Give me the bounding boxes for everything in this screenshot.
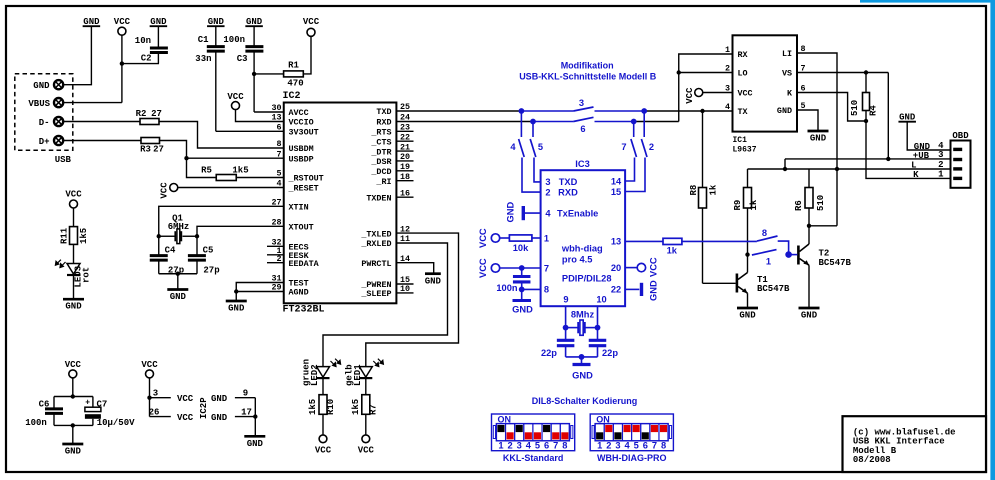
svg-text:LI: LI <box>782 49 792 59</box>
wire R3 to USBDP pin 7 <box>160 141 284 159</box>
node blue tap RXD left <box>530 119 536 125</box>
wire R5 left lead <box>187 158 217 177</box>
svg-text:4: 4 <box>624 440 630 450</box>
svg-text:GND: GND <box>211 413 228 423</box>
resistor R4 510 <box>850 73 879 122</box>
svg-text:1: 1 <box>544 233 549 243</box>
svg-text:6: 6 <box>276 123 281 133</box>
svg-text:VCC: VCC <box>649 257 659 277</box>
svg-text:VCC: VCC <box>141 360 158 370</box>
svg-text:8: 8 <box>544 285 549 295</box>
svg-text:1k: 1k <box>709 184 719 195</box>
svg-text:T2: T2 <box>819 249 830 259</box>
svg-text:+: + <box>85 399 90 408</box>
power VCC (IC3 pin 1) <box>478 228 500 248</box>
wire blue to T2 base <box>789 254 798 256</box>
ground IC2P <box>244 436 265 449</box>
svg-text:3: 3 <box>153 389 158 399</box>
node TXD/R8 junction <box>700 109 704 113</box>
svg-text:ON: ON <box>596 414 610 424</box>
node USBDP/R5 junction <box>184 156 188 160</box>
node crystal right junction <box>195 234 199 238</box>
ground 100n <box>512 289 533 314</box>
connector OBD <box>951 131 971 188</box>
LED LED1 gelb <box>345 359 384 395</box>
node R9/T1 collector junction <box>745 252 749 256</box>
svg-text:13: 13 <box>271 113 281 123</box>
svg-text:TXDEN: TXDEN <box>366 193 391 203</box>
wire IC2P gnd riser <box>254 398 256 437</box>
svg-text:VCCIO: VCCIO <box>289 118 314 128</box>
svg-text:_RTS: _RTS <box>370 128 391 138</box>
svg-text:VCC: VCC <box>315 446 332 456</box>
wire C4-C5 ground bus <box>159 273 197 275</box>
ground C6/C7 <box>62 425 83 456</box>
svg-text:LED2: LED2 <box>310 364 320 386</box>
resistor R8 1k <box>689 111 719 283</box>
IC2 left pin names and numbers <box>271 103 323 298</box>
resistor 1k (pin 13) <box>663 238 757 255</box>
svg-text:BC547B: BC547B <box>757 284 790 294</box>
svg-text:VCC: VCC <box>478 258 488 278</box>
svg-text:R4: R4 <box>869 105 879 116</box>
switch 1 (T1 collector to T2 base) <box>752 250 777 267</box>
node C4/C5 gnd junction <box>176 272 180 276</box>
ground symbol GND (OBD) <box>898 113 916 123</box>
svg-text:33n: 33n <box>195 54 211 64</box>
svg-text:KKL-Standard: KKL-Standard <box>503 453 564 463</box>
svg-text:100n: 100n <box>25 418 47 428</box>
svg-text:RX: RX <box>738 50 749 60</box>
ground crystal <box>572 357 593 381</box>
node blue tap RXD right <box>631 119 637 125</box>
svg-text:27: 27 <box>151 109 162 119</box>
svg-text:4: 4 <box>276 179 281 189</box>
power VCC (IC3 pin 20) <box>625 257 658 277</box>
resistor R9 1k <box>733 169 759 255</box>
svg-text:GND: GND <box>65 302 82 312</box>
svg-text:5: 5 <box>538 142 543 152</box>
node IC2P junction (VCC) <box>147 396 151 400</box>
svg-text:470: 470 <box>287 79 303 89</box>
ground T1 <box>737 308 758 321</box>
transistor T1 BC547B <box>737 255 790 308</box>
svg-text:7: 7 <box>276 149 281 159</box>
wire RXD net (pin24 to switch) <box>396 121 533 123</box>
svg-text:L9637: L9637 <box>733 146 757 155</box>
wire _RXLED pin11 to LED2 <box>323 243 448 367</box>
svg-text:3: 3 <box>938 150 943 160</box>
connector USB pin labels <box>28 81 71 165</box>
svg-text:100n: 100n <box>223 35 245 45</box>
svg-text:5: 5 <box>276 169 281 179</box>
power VCC (LED3) <box>65 190 82 209</box>
svg-text:30: 30 <box>271 103 281 113</box>
svg-text:VCC: VCC <box>177 394 194 404</box>
svg-text:_RESET: _RESET <box>288 184 319 194</box>
connector USB (dashed box) <box>15 74 73 151</box>
svg-text:4: 4 <box>545 208 551 218</box>
wire R2 to USBDM pin 8 <box>159 122 284 149</box>
IC2 left unconnected pin stubs (32,1,2) <box>267 246 284 262</box>
node R4 top junction <box>864 70 868 74</box>
node R4 bottom / K junction <box>864 119 868 123</box>
ground LED3 <box>63 299 84 312</box>
svg-text:GND: GND <box>170 292 187 302</box>
ground T2 <box>799 308 820 321</box>
svg-text:08/2008: 08/2008 <box>853 455 891 465</box>
svg-text:28: 28 <box>271 218 281 228</box>
svg-text:GND: GND <box>33 81 50 91</box>
svg-text:GND: GND <box>777 106 792 116</box>
wire C1 to 3V3OUT pin 6 <box>216 130 284 132</box>
svg-text:D-: D- <box>39 118 50 128</box>
wire LI pin8 to L net <box>797 53 837 226</box>
svg-text:10: 10 <box>596 295 606 305</box>
svg-text:2: 2 <box>508 440 513 450</box>
node blue tap TXD right <box>641 108 647 114</box>
svg-text:R5: R5 <box>201 166 212 176</box>
wire RXD riser to IC1 RX and LO <box>679 54 733 122</box>
IC2P power pins block <box>149 378 256 423</box>
svg-text:GND: GND <box>228 304 245 314</box>
svg-text:14: 14 <box>611 176 622 186</box>
resistor 10k (pin 1) <box>500 235 541 253</box>
ground symbol GND (C2) <box>150 17 168 27</box>
node AVCC filter junction <box>252 72 256 76</box>
svg-text:22p: 22p <box>541 348 557 358</box>
resistor R6 510 <box>794 169 826 226</box>
svg-text:EEDATA: EEDATA <box>289 259 320 269</box>
svg-text:TxEnable: TxEnable <box>557 208 598 218</box>
svg-text:IC2P: IC2P <box>199 397 209 419</box>
DIP switch KKL-Standard <box>492 414 575 463</box>
ground TxEnable pin 4 <box>506 202 541 223</box>
svg-text:GND: GND <box>649 280 659 301</box>
svg-text:GND: GND <box>425 277 442 287</box>
node LI/L junction <box>835 167 839 171</box>
resistor R11 1k5 <box>60 208 90 244</box>
svg-text:4: 4 <box>725 102 730 112</box>
node VBUS/VCC junction <box>120 61 124 65</box>
wire VCC to C6/C7 bus <box>54 378 93 397</box>
svg-text:GND: GND <box>572 371 593 381</box>
svg-text:Modifikation: Modifikation <box>561 61 614 71</box>
svg-text:VBUS: VBUS <box>28 99 50 109</box>
power VCC (from VBUS) <box>114 17 131 35</box>
transistor T2 BC547B <box>798 226 851 308</box>
svg-text:K: K <box>913 170 919 180</box>
svg-text:7: 7 <box>553 440 558 450</box>
svg-text:8Mhz: 8Mhz <box>571 310 595 320</box>
svg-text:R9: R9 <box>733 200 743 211</box>
svg-text:_DCD: _DCD <box>370 167 391 177</box>
svg-text:_DTR: _DTR <box>370 147 392 157</box>
svg-text:R3: R3 <box>140 145 151 155</box>
svg-text:27: 27 <box>271 198 281 208</box>
browser window frame fragment (blue) <box>860 0 995 480</box>
capacitor C1 33n <box>195 26 225 131</box>
capacitor 22p right <box>589 328 619 358</box>
USB pin pads <box>54 80 63 145</box>
crystal Q1 6MHz <box>159 214 197 244</box>
ground symbol GND (C3) <box>245 17 263 27</box>
OBD pin labels <box>911 141 944 180</box>
svg-text:22: 22 <box>611 285 621 295</box>
svg-text:10n: 10n <box>135 36 151 46</box>
crystal 8Mhz <box>566 306 598 335</box>
LED LED3 rot <box>55 244 91 299</box>
ground AGND <box>226 292 247 314</box>
svg-text:XTOUT: XTOUT <box>289 223 314 233</box>
wire VCC to RESET <box>178 187 284 189</box>
svg-text:R11: R11 <box>60 227 70 244</box>
svg-text:26: 26 <box>149 407 160 417</box>
switch 2 (TXD to IC3 pin15) <box>625 111 654 192</box>
svg-text:rot: rot <box>82 267 92 283</box>
svg-text:1k: 1k <box>749 199 759 210</box>
svg-text:VCC: VCC <box>65 360 82 370</box>
resistor R1 470 <box>284 61 304 89</box>
svg-text:8: 8 <box>661 440 666 450</box>
svg-text:VCC: VCC <box>738 89 753 99</box>
svg-text:AGND: AGND <box>289 288 309 298</box>
svg-text:FT232BL: FT232BL <box>283 305 325 316</box>
svg-text:7: 7 <box>621 142 626 152</box>
power VCC (IC3 pin 7) <box>478 258 541 278</box>
DIP switch WBH-DIAG-PRO <box>590 414 673 463</box>
svg-text:17: 17 <box>241 407 252 417</box>
node 100n top junction <box>519 265 525 271</box>
svg-text:6: 6 <box>643 440 648 450</box>
node blue tap TXD left <box>519 108 525 114</box>
IC IC1 L9637 body <box>733 35 798 154</box>
svg-text:3: 3 <box>579 98 584 108</box>
svg-text:1: 1 <box>725 45 730 55</box>
svg-text:9: 9 <box>563 295 568 305</box>
svg-text:_SLEEP: _SLEEP <box>360 289 391 299</box>
resistor R3 27 <box>140 138 164 155</box>
svg-text:2: 2 <box>938 160 943 170</box>
node L/+UB riser junction <box>783 167 787 171</box>
svg-text:VCC: VCC <box>160 182 170 199</box>
power VCC (IC2P) <box>141 360 158 378</box>
node C6/C7 bottom junction <box>71 423 75 427</box>
wire LI to T2 collector <box>809 225 837 227</box>
svg-text:D+: D+ <box>39 137 50 147</box>
node VS/+UB junction <box>886 157 890 161</box>
wire _TXLED pin12 to LED1 <box>366 233 459 367</box>
svg-text:R8: R8 <box>689 185 699 196</box>
wire C3/AVCC node <box>254 74 284 112</box>
node C6/C7 top junction <box>71 394 75 398</box>
power VCC (R1) <box>303 17 320 36</box>
svg-text:GND: GND <box>506 202 516 223</box>
node crystal left junction <box>157 234 161 238</box>
svg-text:DIL8-Schalter Kodierung: DIL8-Schalter Kodierung <box>532 396 638 406</box>
svg-text:AVCC: AVCC <box>289 108 309 118</box>
node 100n bottom junction <box>519 287 525 293</box>
svg-text:6: 6 <box>544 440 549 450</box>
svg-text:TXD: TXD <box>559 177 578 187</box>
svg-text:C1: C1 <box>198 35 209 45</box>
svg-text:pro 4.5: pro 4.5 <box>562 255 592 265</box>
node RX/LO junction <box>677 70 681 74</box>
wire +UB riser and line to OBD <box>785 159 951 169</box>
svg-text:1k5: 1k5 <box>232 166 248 176</box>
svg-text:BC547B: BC547B <box>819 258 852 268</box>
IC IC3 wbh-diag pro body <box>541 159 626 306</box>
switch 4 (TXD to IC3 RXD) <box>510 111 540 192</box>
svg-text:6MHz: 6MHz <box>168 222 190 232</box>
svg-text:C4: C4 <box>165 246 176 256</box>
svg-text:R10: R10 <box>326 399 336 415</box>
svg-text:VCC: VCC <box>65 190 82 200</box>
svg-text:2: 2 <box>545 187 550 197</box>
svg-text:1: 1 <box>938 169 944 179</box>
svg-text:LO: LO <box>738 69 748 79</box>
svg-text:IC2: IC2 <box>283 91 301 102</box>
switch 5 (RXD to IC3 TXD) <box>530 122 543 182</box>
svg-text:10µ/50V: 10µ/50V <box>97 418 135 428</box>
svg-text:6: 6 <box>580 124 585 134</box>
resistor R10 1k5 <box>308 395 336 435</box>
svg-text:27p: 27p <box>203 266 219 276</box>
svg-text:_RSTOUT: _RSTOUT <box>288 174 324 184</box>
svg-text:3: 3 <box>517 440 522 450</box>
capacitor C7 10u/50V electrolytic <box>85 397 135 428</box>
svg-text:510: 510 <box>850 100 860 116</box>
svg-text:PWRCTL: PWRCTL <box>361 259 391 269</box>
power VCC (IC1 pin 3) <box>685 87 733 104</box>
svg-text:USB: USB <box>55 155 72 165</box>
svg-text:_RXLED: _RXLED <box>360 239 391 249</box>
svg-text:USBDM: USBDM <box>289 144 314 154</box>
LED LED2 gruen <box>302 359 341 395</box>
wire PWRCTL to ground <box>396 263 433 274</box>
svg-text:9: 9 <box>243 389 248 399</box>
wire VCC to VCCIO <box>236 110 284 122</box>
svg-text:wbh-diag: wbh-diag <box>561 244 603 254</box>
IC2 right unconnected pin stubs <box>396 131 413 293</box>
svg-text:27: 27 <box>153 145 164 155</box>
svg-text:_CTS: _CTS <box>370 137 391 147</box>
ground C4/C5 <box>167 274 188 302</box>
svg-text:VCC: VCC <box>358 446 375 456</box>
svg-text:1k5: 1k5 <box>308 399 318 415</box>
svg-text:1: 1 <box>766 257 771 267</box>
svg-text:GND: GND <box>512 305 533 315</box>
IC2 right pin names and numbers <box>360 102 410 299</box>
svg-text:TX: TX <box>738 107 749 117</box>
wire VS pin7 to +UB <box>797 73 888 159</box>
wire RXD net (switch to RX/LO riser) <box>634 121 679 123</box>
svg-text:4: 4 <box>526 440 532 450</box>
svg-text:USB-KKL-Schnittstelle Modell B: USB-KKL-Schnittstelle Modell B <box>519 71 657 81</box>
wire K pin6 to OBD K <box>797 93 951 179</box>
resistor R2 27 <box>136 109 162 125</box>
svg-text:15: 15 <box>611 187 621 197</box>
switch 8 (1k to T2 base) <box>757 228 789 255</box>
svg-text:8: 8 <box>562 440 567 450</box>
svg-text:8: 8 <box>762 228 767 238</box>
svg-text:USBDP: USBDP <box>289 154 314 164</box>
svg-text:1k: 1k <box>667 246 678 256</box>
resistor R7 1k5 <box>351 395 379 435</box>
svg-text:C2: C2 <box>141 54 152 64</box>
svg-text:1: 1 <box>597 440 602 450</box>
power VCC (R7) <box>358 435 375 456</box>
node T2 base blue junction <box>785 251 792 258</box>
ground IC3 pin 22 <box>625 280 658 301</box>
text Modifikation header <box>519 61 657 82</box>
svg-text:IC1: IC1 <box>733 136 748 145</box>
svg-text:2: 2 <box>649 142 654 152</box>
svg-text:_DSR: _DSR <box>370 157 392 167</box>
wire GND to USB GND pin <box>63 26 91 84</box>
ground symbol GND (USB shield) <box>83 17 101 27</box>
power VCC (R10) <box>315 435 332 456</box>
svg-text:5: 5 <box>634 440 639 450</box>
wire pin 13 to 1k <box>625 240 663 242</box>
svg-text:VCC: VCC <box>303 17 320 27</box>
switch 7 (RXD to IC3 pin14) <box>621 122 636 182</box>
ground IC1 pin 5 <box>797 110 829 144</box>
capacitor C5 27p <box>188 236 220 275</box>
svg-text:C7: C7 <box>97 400 108 410</box>
svg-text:IC3: IC3 <box>575 159 589 169</box>
wire TXD net (pin25 to switch) <box>396 110 521 112</box>
svg-text:RXD: RXD <box>376 118 391 128</box>
wire GND to OBD pin 4 <box>907 122 950 150</box>
svg-text:GND: GND <box>247 439 264 449</box>
wire XTIN pin 27 to crystal <box>159 206 284 236</box>
svg-text:TXD: TXD <box>376 107 391 117</box>
svg-text:_TXLED: _TXLED <box>360 229 391 239</box>
svg-text:10k: 10k <box>513 243 529 253</box>
svg-text:510: 510 <box>816 195 826 211</box>
svg-text:GND: GND <box>801 311 818 321</box>
wire R5 to RSTOUT pin 5 <box>236 177 284 179</box>
svg-text:R2: R2 <box>136 109 147 119</box>
wire TEST/AGND to ground <box>236 283 284 292</box>
svg-text:VCC: VCC <box>478 228 488 248</box>
IC IC2 FT232BL body <box>283 91 397 316</box>
node R6/T2 collector junction <box>807 224 811 228</box>
svg-text:2: 2 <box>725 64 730 74</box>
svg-text:ON: ON <box>498 414 512 424</box>
resistor R5 1k5 <box>201 166 249 181</box>
wire C6/C7 bottom bus <box>54 424 93 426</box>
svg-text:GND: GND <box>739 311 756 321</box>
svg-text:XTIN: XTIN <box>289 203 309 213</box>
svg-text:VCC: VCC <box>227 92 244 102</box>
svg-text:5: 5 <box>535 440 540 450</box>
svg-text:R6: R6 <box>794 200 804 211</box>
svg-text:C6: C6 <box>39 400 50 410</box>
svg-text:2: 2 <box>606 440 611 450</box>
capacitor C2 10n <box>135 26 168 63</box>
node IC2P gnd junction <box>253 414 257 418</box>
wire R1 to VCC <box>303 36 311 74</box>
wire D+ to R3 <box>63 140 141 142</box>
capacitor C6 100n <box>25 397 63 428</box>
svg-text:4: 4 <box>510 142 516 152</box>
svg-text:VCC: VCC <box>177 413 194 423</box>
capacitor 22p left <box>541 328 574 358</box>
svg-text:7: 7 <box>544 263 549 273</box>
svg-text:3: 3 <box>615 440 620 450</box>
